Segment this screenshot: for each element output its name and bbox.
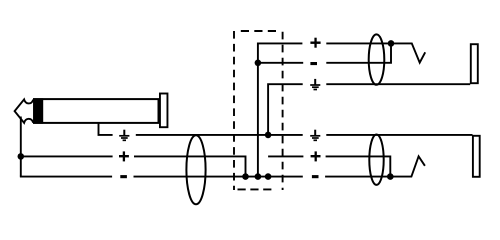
ground drop from sleeve	[99, 123, 113, 135]
jack plug J1 sleeve barrel	[34, 99, 159, 123]
top sleeve contact	[471, 44, 478, 83]
plus label left	[119, 151, 129, 161]
- wire up to + dot	[326, 43, 391, 62]
bottom sleeve contact	[473, 136, 480, 177]
dashed junction box right edge	[282, 32, 284, 190]
dashed junction box left edge	[233, 31, 235, 190]
wire tip down to signal bus	[20, 117, 22, 177]
top tip hook	[391, 43, 425, 62]
+ wire to tie at bottom hook	[326, 156, 391, 176]
junction dot bottom +/-	[387, 173, 394, 180]
ground symbol bottom-right	[310, 130, 320, 141]
jack plug J1 insulator band	[33, 98, 43, 123]
minus label left	[120, 175, 127, 178]
gnd wire to bottom sleeve	[326, 134, 472, 136]
ground symbol top-right	[310, 79, 320, 90]
dashed junction box top edge	[241, 30, 280, 32]
junction dot gnd	[265, 132, 272, 139]
plus label top	[310, 38, 320, 48]
bottom tip hook	[390, 156, 425, 176]
- signal bus wire	[134, 176, 303, 178]
cable ellipse bottom-right	[369, 135, 383, 185]
+ wire top to dot	[326, 42, 391, 44]
junction dot tip/+	[18, 153, 25, 160]
minus label top	[310, 62, 317, 65]
cable ellipse top-right	[369, 34, 385, 84]
- wire left segment	[20, 176, 112, 178]
dashed junction box bottom edge	[238, 188, 273, 190]
+ wire left to tie-down	[134, 156, 246, 176]
wire tip-signal to top connector (vertical A)	[258, 43, 303, 176]
junction dot top +/-	[388, 40, 395, 47]
- wire to bottom hook junction	[325, 176, 390, 178]
ground bus wire	[136, 134, 303, 136]
cable ellipse left	[186, 135, 205, 204]
gnd wire to top sleeve	[326, 83, 470, 85]
jack plug J1 tip	[15, 99, 34, 123]
wire gnd to top connector (vertical B)	[268, 84, 303, 135]
jack plug J1 end cap	[160, 94, 168, 128]
plus label bottom-right	[311, 151, 321, 161]
top - wire	[258, 62, 303, 64]
junction dot top -	[255, 60, 262, 67]
junction dot bus/bottom+	[265, 173, 272, 180]
ground symbol left	[119, 130, 129, 141]
junction dot +/- tie left	[242, 173, 249, 180]
+ wire bottom-right segment	[268, 155, 303, 157]
junction dot bus/top-connector	[255, 173, 262, 180]
+ wire left segment	[21, 155, 113, 157]
minus label bottom-right	[312, 175, 319, 178]
